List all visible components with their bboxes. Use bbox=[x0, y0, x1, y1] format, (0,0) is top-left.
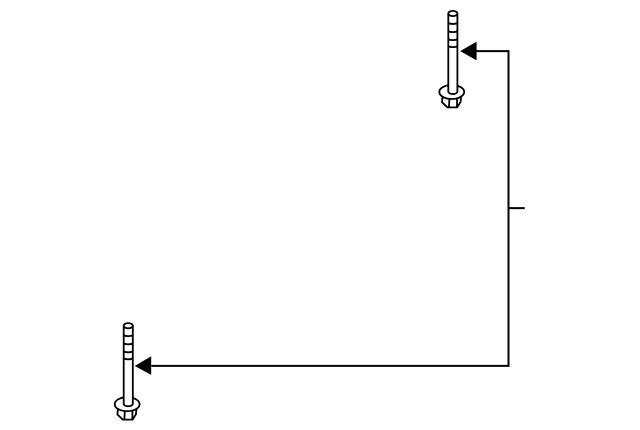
bolt B1 (upper right flange bolt) bbox=[439, 11, 464, 108]
arrowhead A2 (points left at lower bolt) bbox=[135, 356, 152, 375]
bolt B2 (lower left flange bolt) bbox=[115, 323, 140, 420]
arrowhead A1 (points left at upper bolt) bbox=[460, 42, 476, 61]
leader line (from upper bolt, right, down, to lower bolt) bbox=[151, 51, 508, 366]
tick mark on leader line bbox=[509, 207, 525, 209]
